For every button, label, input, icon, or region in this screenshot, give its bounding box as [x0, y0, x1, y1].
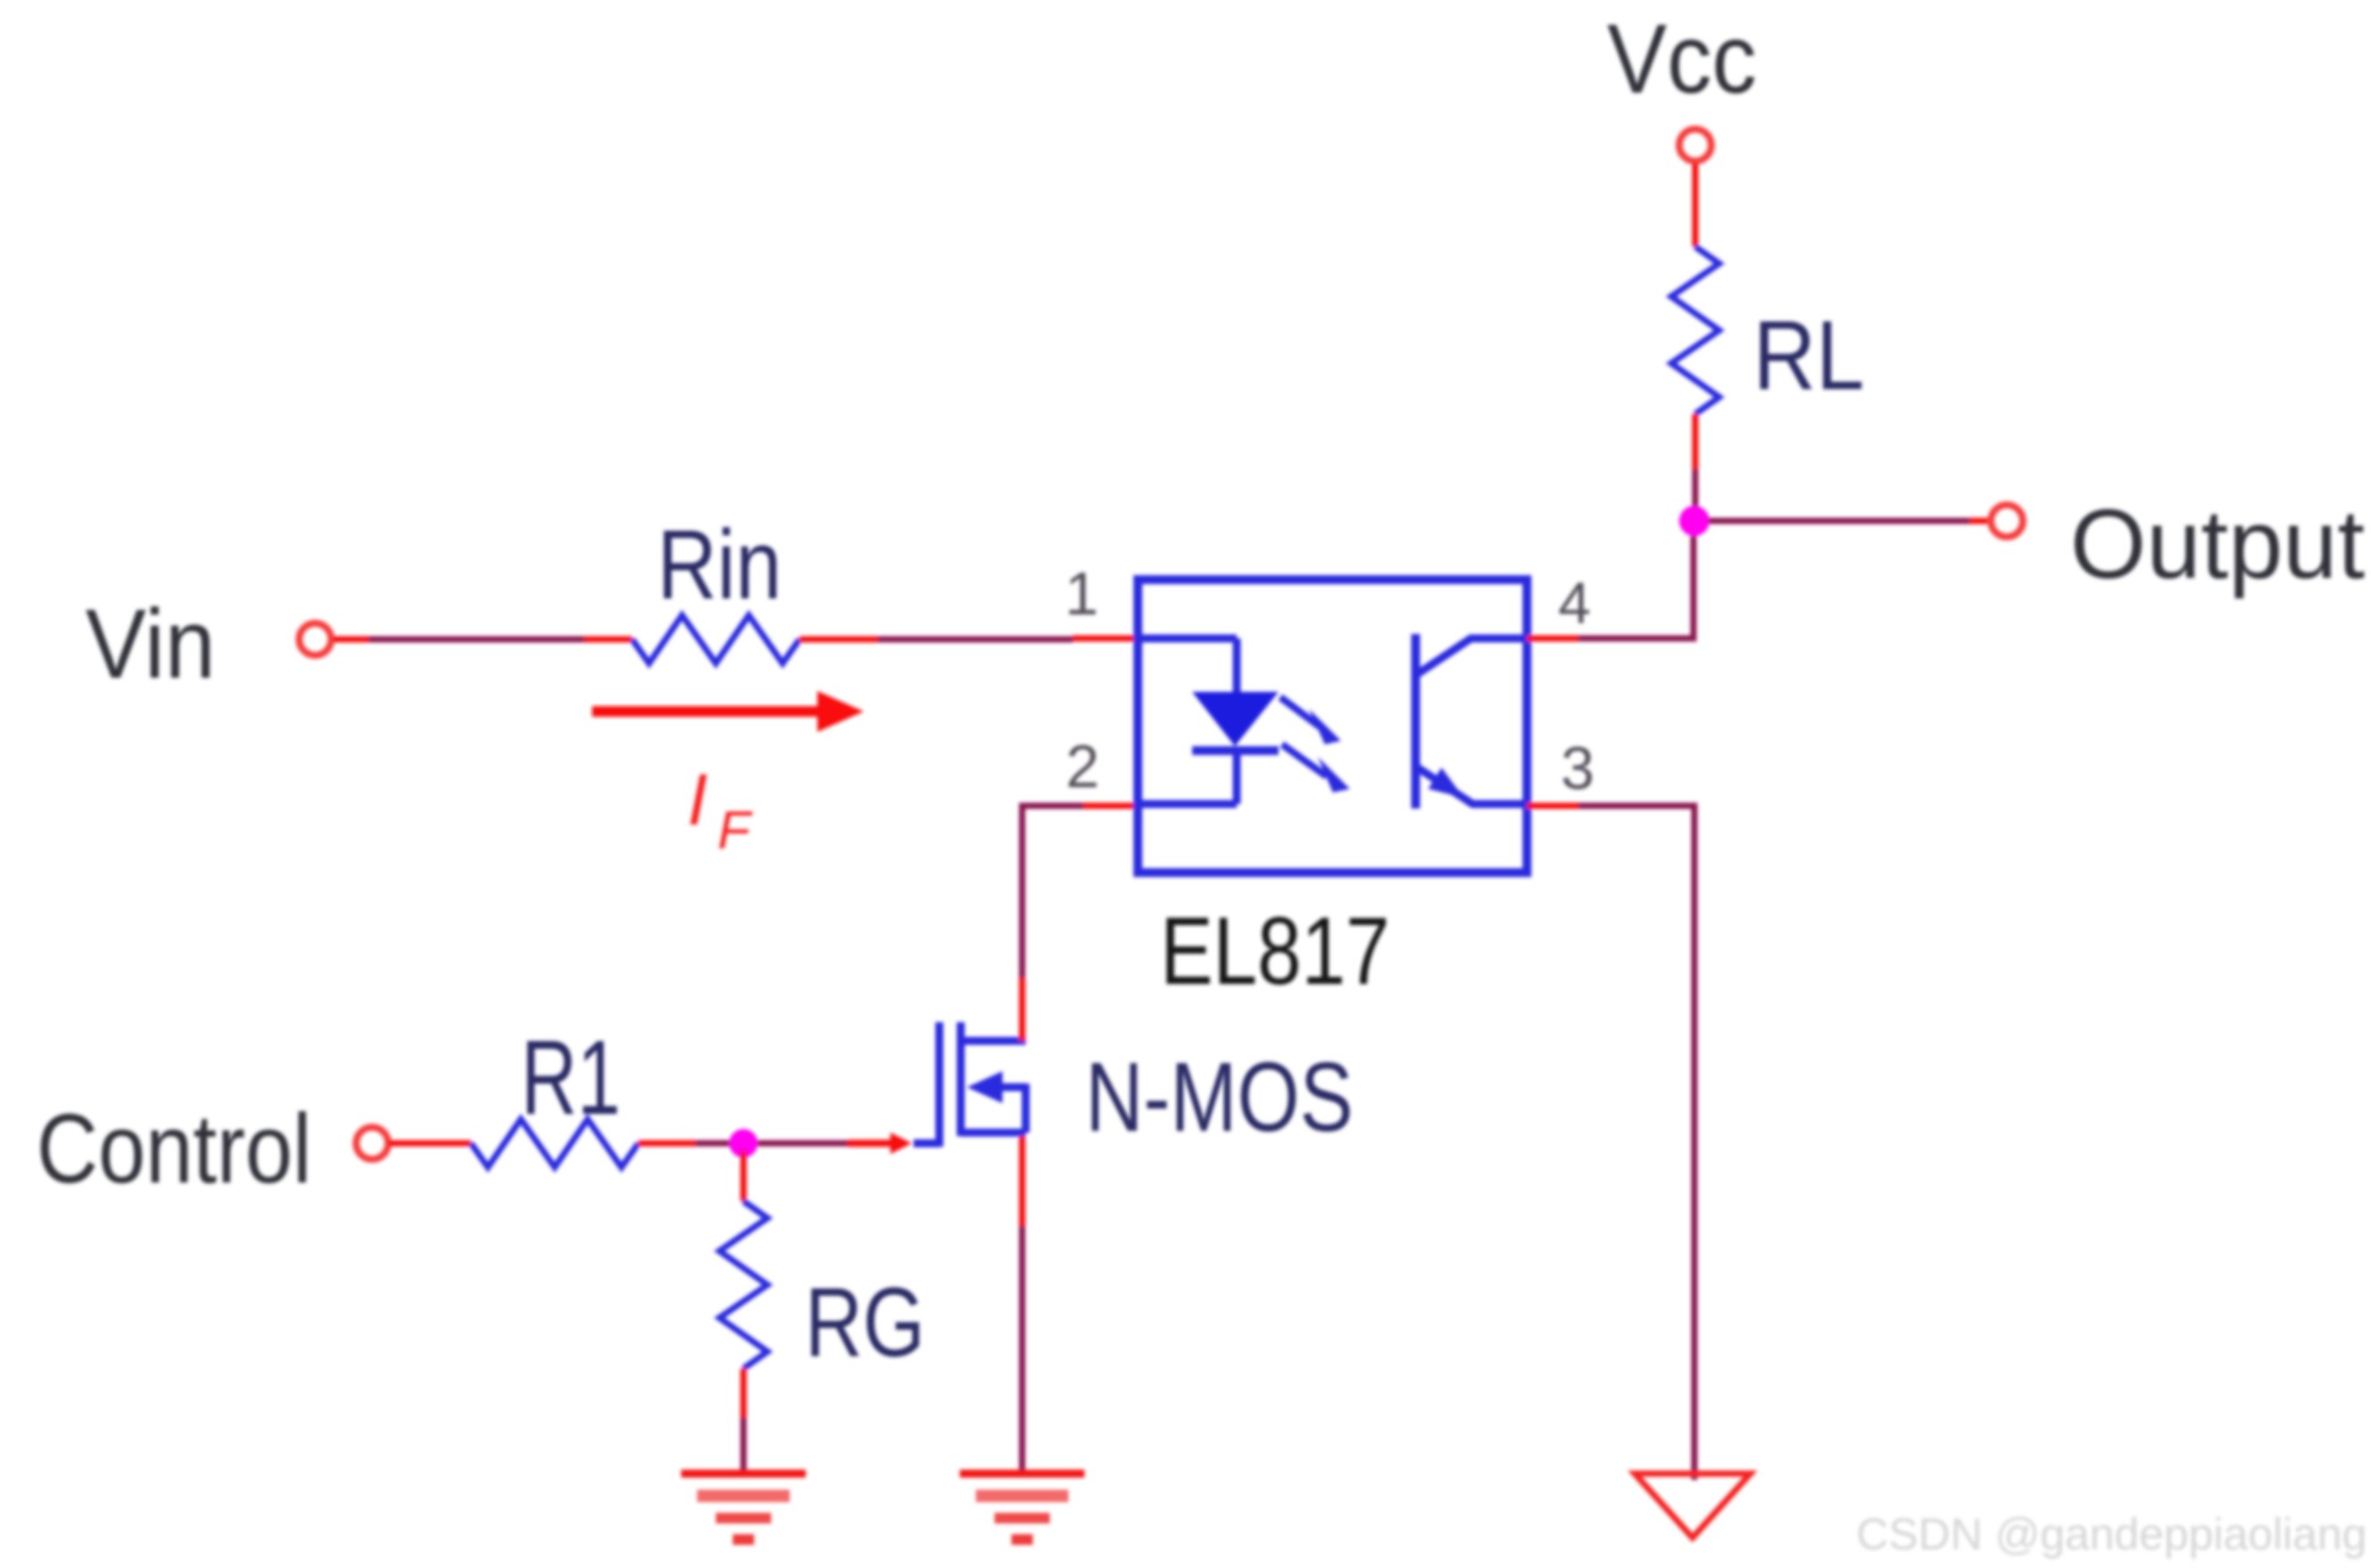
svg-text:RG: RG — [805, 1268, 925, 1377]
gate arrow — [890, 1133, 912, 1154]
svg-text:EL817: EL817 — [1160, 897, 1390, 1004]
transistor Q1 N-MOS — [913, 1022, 1026, 1147]
wire source down to ground — [1019, 1136, 1026, 1226]
svg-text:2: 2 — [1066, 733, 1100, 800]
terminal Vin — [299, 623, 331, 655]
ground earth triangle — [1635, 1474, 1750, 1538]
ground RG — [681, 1474, 806, 1540]
LED light arrows — [1280, 697, 1350, 792]
junction output node — [1679, 506, 1709, 536]
phototransistor inside EL817 — [1416, 634, 1527, 808]
svg-text:CSDN @gandeppiaoliang: CSDN @gandeppiaoliang — [1856, 1509, 2367, 1559]
ground N-MOS source — [960, 1474, 1084, 1540]
wire Control to R1 — [388, 1141, 471, 1147]
wire junction down to RG — [741, 1150, 747, 1201]
wire junction down to pin 4 — [1579, 536, 1693, 638]
svg-text:R1: R1 — [521, 1019, 621, 1137]
wire pin 3 to ground — [1527, 803, 1579, 809]
current arrow IF — [592, 706, 819, 717]
svg-text:Vcc: Vcc — [1607, 4, 1757, 114]
svg-text:Output: Output — [2070, 490, 2365, 599]
svg-text:4: 4 — [1558, 570, 1591, 636]
LED D1 inside EL817 — [1138, 638, 1279, 804]
wire R1 to junction — [638, 1141, 695, 1147]
terminal Output — [1991, 505, 2023, 537]
svg-text:RL: RL — [1753, 301, 1864, 410]
svg-text:Rin: Rin — [657, 510, 782, 620]
wire drain up to pin 2 — [1019, 978, 1026, 1041]
svg-text:N-MOS: N-MOS — [1085, 1043, 1353, 1152]
resistor Rin — [632, 615, 800, 663]
wire Rin to pin 1 — [800, 637, 878, 643]
resistor RL — [1671, 247, 1719, 414]
resistor RG — [719, 1201, 767, 1369]
wire junction to Output terminal — [1709, 518, 1969, 524]
junction gate node — [729, 1129, 758, 1158]
wire Vin to Rin — [333, 637, 369, 643]
svg-text:3: 3 — [1561, 735, 1595, 802]
terminal Control — [356, 1127, 388, 1159]
wire RG to ground — [741, 1369, 747, 1418]
wire junction to gate — [758, 1141, 880, 1147]
resistor R1 — [471, 1119, 638, 1167]
svg-text:I: I — [687, 760, 708, 841]
wire RL to junction — [1693, 414, 1699, 469]
svg-text:Control: Control — [37, 1094, 312, 1204]
terminal Vcc — [1679, 129, 1711, 161]
optocoupler U1 EL817 box — [1138, 580, 1527, 873]
svg-text:1: 1 — [1065, 560, 1099, 628]
wire Vcc to RL — [1693, 163, 1699, 247]
svg-text:Vin: Vin — [85, 589, 215, 699]
svg-text:F: F — [718, 800, 753, 860]
